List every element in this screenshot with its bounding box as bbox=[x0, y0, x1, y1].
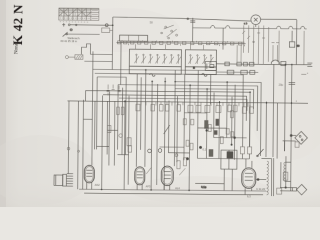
cathode bus bbox=[85, 91, 250, 147]
switch contacts 2 bbox=[188, 55, 213, 64]
cap circle 1 bbox=[119, 134, 123, 138]
capacitor dot 2 bbox=[233, 137, 235, 139]
smoothing column bbox=[291, 65, 292, 192]
text 01 bbox=[203, 147, 207, 151]
band switch box 1 bbox=[129, 49, 181, 74]
field coil leads bbox=[271, 43, 279, 62]
fuse resistors bbox=[242, 107, 253, 114]
grid resistor a bbox=[117, 107, 120, 115]
oscillator trimmer marks bbox=[161, 25, 178, 39]
wave symbol 1 bbox=[150, 74, 155, 77]
tube2 riser bbox=[135, 74, 138, 167]
grid cap 2 bbox=[158, 149, 162, 153]
left riser 4 bbox=[96, 77, 99, 149]
magic eye leads bbox=[242, 21, 269, 64]
resistor vertical 1 bbox=[208, 124, 211, 131]
link wire 1 bbox=[184, 112, 206, 114]
mains switch bbox=[257, 149, 264, 157]
driver resistor bbox=[128, 143, 193, 153]
right riser 5 bbox=[272, 64, 275, 157]
ground bus bbox=[67, 101, 307, 103]
screen bus bbox=[175, 89, 254, 109]
center riser 3 bbox=[173, 70, 176, 166]
agc bus bbox=[103, 95, 247, 121]
tube V4 label bbox=[247, 187, 266, 199]
link wire 10 bbox=[117, 154, 128, 156]
center riser 8b bbox=[209, 74, 211, 104]
tube V1 label bbox=[95, 183, 100, 187]
tube2 riser c bbox=[144, 70, 147, 167]
right riser 6 bbox=[284, 66, 287, 152]
tube V2 label bbox=[146, 184, 151, 188]
left riser 9 bbox=[123, 100, 126, 189]
electrolytic 20u bbox=[278, 72, 308, 103]
svg-text:AL4: AL4 bbox=[175, 186, 180, 190]
grid resistor row bbox=[136, 104, 237, 112]
dipole terminal bbox=[102, 28, 113, 33]
left riser 5 bbox=[101, 95, 104, 189]
avc bus 1 bbox=[93, 69, 216, 70]
output transformer bbox=[221, 150, 237, 191]
link wire 5 bbox=[168, 152, 189, 154]
antenna lead wire bbox=[70, 24, 113, 26]
right riser 1 bbox=[242, 105, 244, 147]
title Nora bbox=[13, 43, 19, 54]
link wire 3 bbox=[214, 137, 247, 139]
band switch box 2 bbox=[185, 50, 216, 75]
volume pot arrow bbox=[164, 125, 170, 134]
coupling cap line bbox=[195, 184, 224, 190]
right riser 4 bbox=[265, 102, 268, 157]
tube V2 bbox=[135, 167, 145, 190]
center riser 9 bbox=[213, 93, 215, 138]
svg-text:AF3: AF3 bbox=[146, 184, 151, 188]
capacitor dot 3 bbox=[231, 144, 233, 146]
center riser 10 bbox=[218, 101, 221, 158]
tube V1 bbox=[84, 165, 94, 189]
left riser 6 bbox=[108, 92, 111, 166]
hop wire b bbox=[303, 31, 305, 65]
center riser 5 bbox=[183, 74, 186, 160]
wave symbol 2 bbox=[202, 74, 207, 77]
left riser 5c bbox=[106, 101, 109, 154]
center riser 8 bbox=[205, 88, 208, 158]
small box 1 bbox=[127, 138, 131, 146]
antenna terminal bbox=[62, 23, 70, 27]
coil label text bbox=[61, 36, 81, 43]
ground bus ticks bbox=[137, 102, 248, 107]
earth symbol bbox=[70, 29, 73, 31]
center riser 13 bbox=[233, 85, 236, 160]
mains plug bbox=[280, 156, 307, 195]
transformer right rail bbox=[280, 162, 282, 188]
resistor vertical 2 bbox=[220, 137, 223, 144]
svg-text:0,1: 0,1 bbox=[203, 147, 207, 151]
riser x152 bbox=[151, 80, 152, 189]
svg-text:60 41 25 19 m: 60 41 25 19 m bbox=[61, 39, 78, 43]
tuning indicator lamp bbox=[251, 15, 261, 27]
speaker feed 2 bbox=[77, 101, 80, 189]
center riser 4 bbox=[176, 96, 179, 162]
center riser 11 bbox=[226, 81, 229, 137]
wire x296 bbox=[295, 20, 297, 65]
speaker bbox=[54, 173, 73, 186]
supply line bbox=[216, 59, 312, 66]
svg-text:20µ: 20µ bbox=[279, 83, 284, 87]
center riser 7 bbox=[196, 70, 199, 158]
cathode bus stub bbox=[84, 91, 86, 101]
band indicator mark bbox=[193, 66, 195, 69]
tube V4 bbox=[242, 159, 267, 195]
tube V3 label bbox=[175, 186, 180, 190]
link wire 9 bbox=[97, 145, 109, 147]
hop wire a bbox=[278, 31, 280, 65]
small box 2 bbox=[107, 125, 110, 132]
heater bus a bbox=[79, 189, 266, 191]
hf choke boxes bbox=[205, 61, 216, 70]
padder label bbox=[150, 20, 153, 24]
mains transformer bbox=[261, 158, 291, 196]
left riser 3 bbox=[92, 51, 93, 165]
phono switch lever bbox=[63, 32, 100, 37]
svg-text:AK2: AK2 bbox=[95, 183, 100, 187]
second filter row bbox=[216, 70, 258, 74]
heater bus b bbox=[84, 193, 263, 195]
left riser 7b bbox=[120, 42, 122, 84]
wire x222 bbox=[222, 28, 224, 49]
tube2 riser b bbox=[140, 77, 143, 149]
center components bbox=[183, 119, 234, 157]
padder capacitor bbox=[187, 18, 196, 43]
wave-band table bbox=[59, 8, 99, 22]
interstage arrow bbox=[146, 167, 151, 174]
grid cap 1 bbox=[148, 149, 152, 153]
decoupling bus bbox=[119, 98, 247, 111]
left riser 6b bbox=[113, 101, 116, 165]
transformer feed wire bbox=[276, 103, 279, 159]
link wire 8 bbox=[107, 129, 117, 131]
left riser 2 bbox=[82, 100, 85, 189]
center riser 6 bbox=[189, 84, 190, 190]
oscillator line with hops bbox=[193, 25, 307, 28]
left riser 5b bbox=[94, 101, 96, 149]
left riser 8 bbox=[121, 88, 124, 155]
pickup sockets bbox=[283, 131, 308, 151]
right riser 2 bbox=[249, 105, 251, 147]
wave trap bbox=[65, 55, 83, 60]
center riser 1 bbox=[164, 78, 165, 190]
center riser 12 bbox=[231, 97, 233, 145]
hum cap bbox=[67, 147, 79, 152]
left riser 10 bbox=[127, 96, 130, 185]
grid resistor b bbox=[121, 107, 124, 115]
link wire 4 bbox=[160, 146, 184, 148]
svg-text:0,1µ: 0,1µ bbox=[201, 185, 207, 189]
resistor vertical 3 bbox=[231, 111, 234, 118]
top bus wire bbox=[112, 17, 296, 71]
title K 42 N bbox=[10, 4, 25, 45]
coupling caps mid bbox=[107, 84, 121, 95]
svg-text:K 42 N: K 42 N bbox=[10, 4, 25, 45]
svg-text:U 11 22: U 11 22 bbox=[256, 187, 265, 191]
anode bus 2 bbox=[118, 85, 258, 131]
link wire 6 bbox=[197, 157, 249, 159]
switch contacts 1 bbox=[134, 54, 181, 64]
antenna trimmer circle bbox=[105, 24, 108, 27]
link wire 2 bbox=[198, 127, 227, 129]
center riser 2 bbox=[167, 101, 170, 153]
capacitor dot 1 bbox=[205, 129, 207, 131]
aerial coil box bbox=[120, 35, 148, 41]
avc bus 3 bbox=[96, 77, 126, 155]
aerial coil loops bbox=[81, 44, 112, 62]
left riser 7 bbox=[117, 85, 120, 150]
fuse box 1 bbox=[240, 147, 244, 159]
tube V3 bbox=[161, 166, 173, 190]
svg-text:a b: a b bbox=[244, 21, 248, 25]
fuse box 2 bbox=[247, 147, 251, 159]
rf component row bbox=[116, 40, 245, 62]
anode bus 1 bbox=[174, 82, 261, 156]
riser x157 bbox=[156, 84, 159, 185]
svg-text:Nora: Nora bbox=[13, 43, 19, 54]
link wire 7 bbox=[83, 118, 92, 120]
avc bus 2 bbox=[94, 73, 243, 104]
resistor 40 bbox=[289, 31, 300, 48]
output stage resistors bbox=[175, 154, 189, 176]
speaker feed 1 bbox=[67, 101, 70, 174]
